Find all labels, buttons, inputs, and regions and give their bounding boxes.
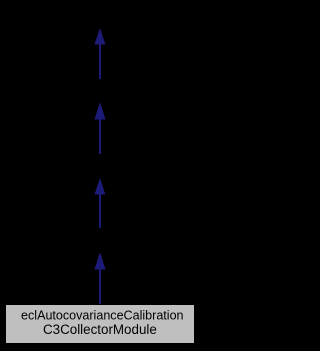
arrow 4 (inheritance edge, midnightblue, pointing up) (95, 252, 106, 306)
svg-text:eclAutocovarianceCalibration: eclAutocovarianceCalibration (21, 309, 184, 323)
current node box: eclAutocovarianceCalibrationC3CollectorModule (6, 305, 195, 344)
node box 3 (black on black: invisible) (40, 153, 160, 178)
node box 4 (black on black: invisible) (40, 228, 160, 253)
arrow 3 (inheritance edge, midnightblue, pointing up) (95, 178, 106, 228)
node box 1 (top ancestor, black on black: invisible) (40, 5, 160, 30)
svg-text:C3CollectorModule: C3CollectorModule (43, 322, 157, 337)
arrow 2 (inheritance edge, midnightblue, pointing up) (95, 102, 106, 154)
arrow 1 (inheritance edge, midnightblue, pointing up) (95, 28, 106, 79)
node box 2 (black on black: invisible) (40, 79, 160, 103)
inheritance graph (0, 0, 200, 351)
